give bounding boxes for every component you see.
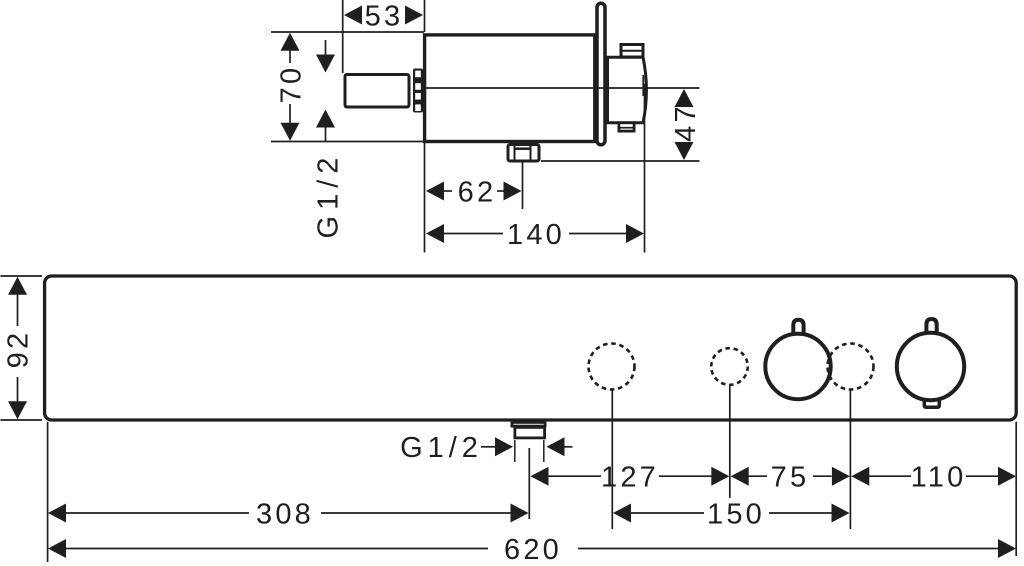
svg-text:G1/2: G1/2 (312, 152, 344, 239)
wire fitting side extension left (514, 440, 516, 462)
wire extension hex center (522, 163, 524, 210)
dimension 140 (426, 224, 644, 243)
wire extension 47 bottom (541, 160, 700, 162)
outlet fitting flange (512, 422, 545, 426)
dimension 70 (281, 33, 300, 141)
wire extension line 53 right (424, 0, 426, 32)
svg-text:53: 53 (365, 0, 404, 32)
knob B top tab (926, 319, 936, 333)
svg-text:G1/2: G1/2 (400, 432, 483, 464)
dimension 92 (8, 277, 27, 419)
wire extension line 53 left (342, 0, 344, 73)
svg-text:140: 140 (507, 219, 565, 251)
dimension 620 (48, 539, 1016, 558)
knob circle A (765, 334, 830, 399)
valve body (425, 35, 595, 142)
wall plate (597, 3, 605, 145)
svg-text:127: 127 (601, 462, 659, 494)
connector union body (608, 57, 647, 123)
connector bottom tab (619, 123, 634, 131)
wire extension bar left (47, 422, 49, 562)
dimension 127 (531, 467, 730, 486)
centerline axis (426, 87, 700, 89)
svg-text:110: 110 (911, 462, 967, 494)
wire extension 62/140 left (424, 143, 426, 253)
knob B bottom tab (924, 400, 939, 408)
svg-text:62: 62 (458, 176, 497, 208)
pipe thread flange (413, 69, 423, 113)
svg-text:308: 308 (256, 498, 314, 530)
dimension 110 (851, 467, 1016, 486)
hex fitting under body (508, 145, 539, 162)
wire extension dashed circle 2 (729, 385, 731, 498)
connector top tab (621, 45, 643, 58)
outlet fitting body (515, 427, 545, 438)
wire extension dashed circle 1 (611, 390, 613, 529)
svg-text:47: 47 (670, 103, 702, 142)
dimension 150 (613, 504, 850, 523)
G1/2 pointer upper arrow (316, 40, 335, 73)
wire extension line 70 bottom (271, 141, 424, 143)
knob circle B (897, 333, 964, 400)
dimension 75 (731, 467, 850, 486)
dimension 308 (48, 504, 529, 523)
wire fitting centerline (528, 448, 530, 519)
wire fitting side extension right (543, 440, 545, 462)
svg-text:70: 70 (275, 65, 307, 104)
dimension 62 (426, 182, 522, 201)
wire extension 92 top (1, 275, 43, 277)
svg-text:75: 75 (771, 462, 810, 494)
wire extension line 70 top (271, 31, 424, 33)
connector face edge line (642, 75, 644, 96)
dimension 47 (675, 89, 694, 160)
knob A top tab (793, 320, 803, 334)
node dashed circle 3 (828, 344, 874, 390)
node dashed circle 2 (711, 348, 748, 385)
wire extension 140 right (644, 84, 646, 253)
wire extension bar right (1015, 422, 1017, 556)
G1/2 pointer lower arrow (316, 110, 335, 142)
G1/2 arrow to fitting (481, 437, 513, 456)
pipe inlet (345, 75, 409, 108)
svg-text:92: 92 (2, 330, 34, 369)
wire extension 92 bottom (1, 419, 43, 421)
svg-text:620: 620 (504, 534, 562, 566)
fitting right arrow (547, 437, 573, 456)
svg-text:150: 150 (707, 498, 765, 530)
node dashed circle 1 (589, 344, 635, 390)
shower bar panel (45, 276, 1017, 420)
wire extension dashed circle 3 (849, 390, 851, 529)
dimension 53 arrows (344, 6, 423, 25)
